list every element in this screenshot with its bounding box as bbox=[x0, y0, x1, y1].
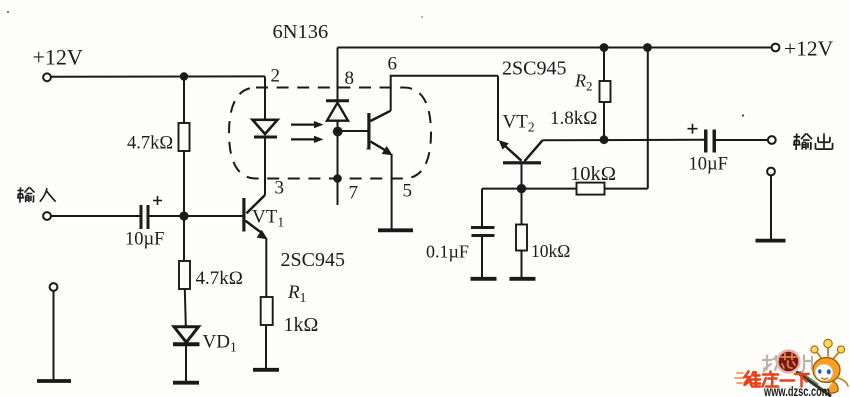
watermark mascot antennae bbox=[816, 345, 840, 359]
watermark logo group bbox=[735, 339, 848, 397]
ground under VD1 bbox=[173, 381, 199, 385]
svg-text:5: 5 bbox=[403, 181, 413, 202]
wire top rail bbox=[338, 47, 773, 49]
light arrow upper bbox=[291, 123, 317, 125]
terminal output ground bbox=[767, 168, 775, 176]
wire R2 upper lead bbox=[603, 48, 605, 82]
watermark text 维库一下 bbox=[745, 372, 809, 387]
transistor VT1 emitter with arrow bbox=[246, 221, 261, 232]
wire pin 6 bbox=[391, 76, 498, 111]
wire R1 to ground bbox=[265, 325, 267, 369]
ground under 10k vertical bbox=[510, 277, 536, 281]
wire pin 8 bbox=[337, 48, 339, 101]
svg-text:1kΩ: 1kΩ bbox=[284, 314, 319, 336]
phototransistor emitter with arrow bbox=[371, 142, 387, 152]
wire to lower divider bbox=[183, 216, 185, 261]
capacitor C-in plates bbox=[140, 205, 143, 229]
polarity + of output cap bbox=[688, 124, 698, 134]
transistor VT2 base lead bbox=[521, 164, 523, 188]
ground under R1 bbox=[253, 368, 279, 372]
wire R upper lead bbox=[183, 77, 185, 124]
svg-text:VT2: VT2 bbox=[503, 112, 535, 135]
svg-text:+12V: +12V bbox=[784, 37, 834, 61]
terminal output bbox=[768, 136, 776, 144]
ground under pin 5 bbox=[378, 228, 413, 232]
node base junction dot VT2 bbox=[517, 184, 526, 193]
polarity + of C-in bbox=[153, 196, 162, 205]
wire 10k to +12V riser bbox=[605, 48, 648, 189]
node input junction dot bbox=[179, 211, 188, 220]
svg-text:8: 8 bbox=[345, 68, 355, 89]
svg-text:+12V: +12V bbox=[33, 45, 83, 70]
transistor VT2 emitter feed wire bbox=[497, 76, 499, 141]
svg-text:3: 3 bbox=[275, 178, 285, 199]
resistor R2 bbox=[600, 81, 611, 102]
wire pin 5 bbox=[391, 154, 393, 229]
diode VD1 bbox=[174, 327, 199, 343]
speck artifacts bbox=[7, 11, 9, 13]
wire collector to output cap bbox=[543, 139, 705, 142]
phototransistor base bar bbox=[367, 113, 370, 150]
node A junction dot bbox=[180, 72, 188, 80]
svg-text:0.1µF: 0.1µF bbox=[426, 242, 469, 262]
resistor R1 bbox=[261, 297, 273, 325]
svg-text:2SC945: 2SC945 bbox=[281, 249, 345, 271]
wire input to capacitor bbox=[51, 215, 140, 217]
phototransistor collector bbox=[371, 111, 391, 121]
svg-text:www.dzsc.com: www.dzsc.com bbox=[763, 384, 830, 397]
node collector junction dot bbox=[600, 135, 609, 144]
transistor VT2 emitter with arrow bbox=[504, 145, 522, 161]
ground left bbox=[37, 379, 71, 383]
wire photodiode to base bbox=[338, 130, 368, 132]
svg-text:10µF: 10µF bbox=[689, 155, 728, 175]
watermark mascot body bbox=[826, 381, 838, 393]
wire output cap to terminal bbox=[716, 139, 768, 141]
capacitor 10uF output plates bbox=[704, 130, 708, 153]
node base junction dot bbox=[333, 127, 343, 137]
watermark mascot head bbox=[813, 358, 840, 383]
transistor VT2 base bar bbox=[503, 161, 541, 164]
watermark pencil bbox=[798, 373, 831, 396]
wire left ground stem bbox=[53, 290, 55, 381]
svg-text:R1: R1 bbox=[287, 282, 306, 305]
svg-text:7: 7 bbox=[349, 183, 359, 204]
watermark magnifier with 芯 bbox=[778, 351, 800, 373]
resistor 10k horizontal bbox=[577, 183, 605, 195]
node rail dot R2 bbox=[600, 43, 609, 52]
label output 输出 bbox=[793, 133, 833, 150]
svg-text:2SC945: 2SC945 bbox=[502, 58, 566, 80]
resistor 4.7k lower bbox=[179, 261, 190, 289]
svg-text:2: 2 bbox=[271, 66, 281, 87]
svg-text:10kΩ: 10kΩ bbox=[531, 241, 570, 261]
node pin7 dot bbox=[333, 174, 342, 183]
svg-text:VT1: VT1 bbox=[252, 207, 284, 230]
resistor 10k vertical bbox=[516, 225, 527, 251]
svg-text:6: 6 bbox=[388, 54, 398, 75]
wire output ground stem bbox=[770, 175, 772, 239]
wire R2 lower lead bbox=[603, 102, 605, 140]
terminal +12V right bbox=[772, 44, 780, 52]
terminal +12V left bbox=[43, 73, 51, 81]
resistor 10k vertical lead bbox=[521, 189, 523, 225]
watermark glyph 找 bbox=[763, 356, 782, 372]
svg-text:10kΩ: 10kΩ bbox=[570, 163, 616, 185]
node rail dot bias bbox=[643, 43, 652, 52]
wire pin 2 bbox=[264, 76, 266, 120]
wire +12V rail left bbox=[51, 75, 265, 77]
terminal floating ground left bbox=[50, 283, 58, 291]
label input 输入 bbox=[17, 187, 56, 202]
wire to VD1 bbox=[185, 289, 186, 326]
watermark glyph 片 bbox=[803, 356, 812, 372]
svg-text:1.8kΩ: 1.8kΩ bbox=[550, 108, 597, 129]
watermark mascot eyes bbox=[818, 369, 822, 374]
wire 0.1uF to ground bbox=[481, 237, 483, 277]
svg-text:6N136: 6N136 bbox=[273, 21, 329, 43]
wire VT1 emitter to R1 bbox=[265, 239, 267, 297]
wire 10k vertical to ground bbox=[521, 251, 523, 278]
capacitor 0.1uF lead bbox=[481, 189, 483, 226]
wire R lower lead to input node bbox=[183, 151, 185, 216]
terminal input bbox=[43, 212, 51, 220]
wire pin 7 stub bbox=[337, 131, 339, 205]
light arrow lower bbox=[291, 138, 317, 140]
transistor VT1 collector bbox=[247, 195, 266, 213]
svg-text:VD1: VD1 bbox=[203, 332, 237, 355]
ground right bbox=[756, 239, 786, 243]
svg-text:R2: R2 bbox=[574, 71, 593, 94]
transistor VT1 base bar bbox=[242, 198, 245, 232]
capacitor 0.1uF plates bbox=[471, 226, 495, 229]
ground under 0.1uF bbox=[471, 277, 497, 281]
svg-text:10µF: 10µF bbox=[125, 230, 164, 250]
optocoupler dashed outline bbox=[229, 88, 431, 179]
wire pin 3 bbox=[264, 138, 266, 195]
resistor 4.7k upper bbox=[179, 123, 190, 151]
svg-text:4.7kΩ: 4.7kΩ bbox=[196, 268, 243, 289]
wire capacitor to VT1 base bbox=[150, 215, 244, 217]
LED input diode of opto bbox=[253, 120, 278, 134]
svg-text:4.7kΩ: 4.7kΩ bbox=[127, 134, 173, 154]
transistor VT2 collector bbox=[525, 140, 543, 161]
watermark speed lines bbox=[735, 373, 743, 383]
wire base bias rail bbox=[482, 188, 577, 190]
photodiode of opto bbox=[326, 99, 349, 102]
